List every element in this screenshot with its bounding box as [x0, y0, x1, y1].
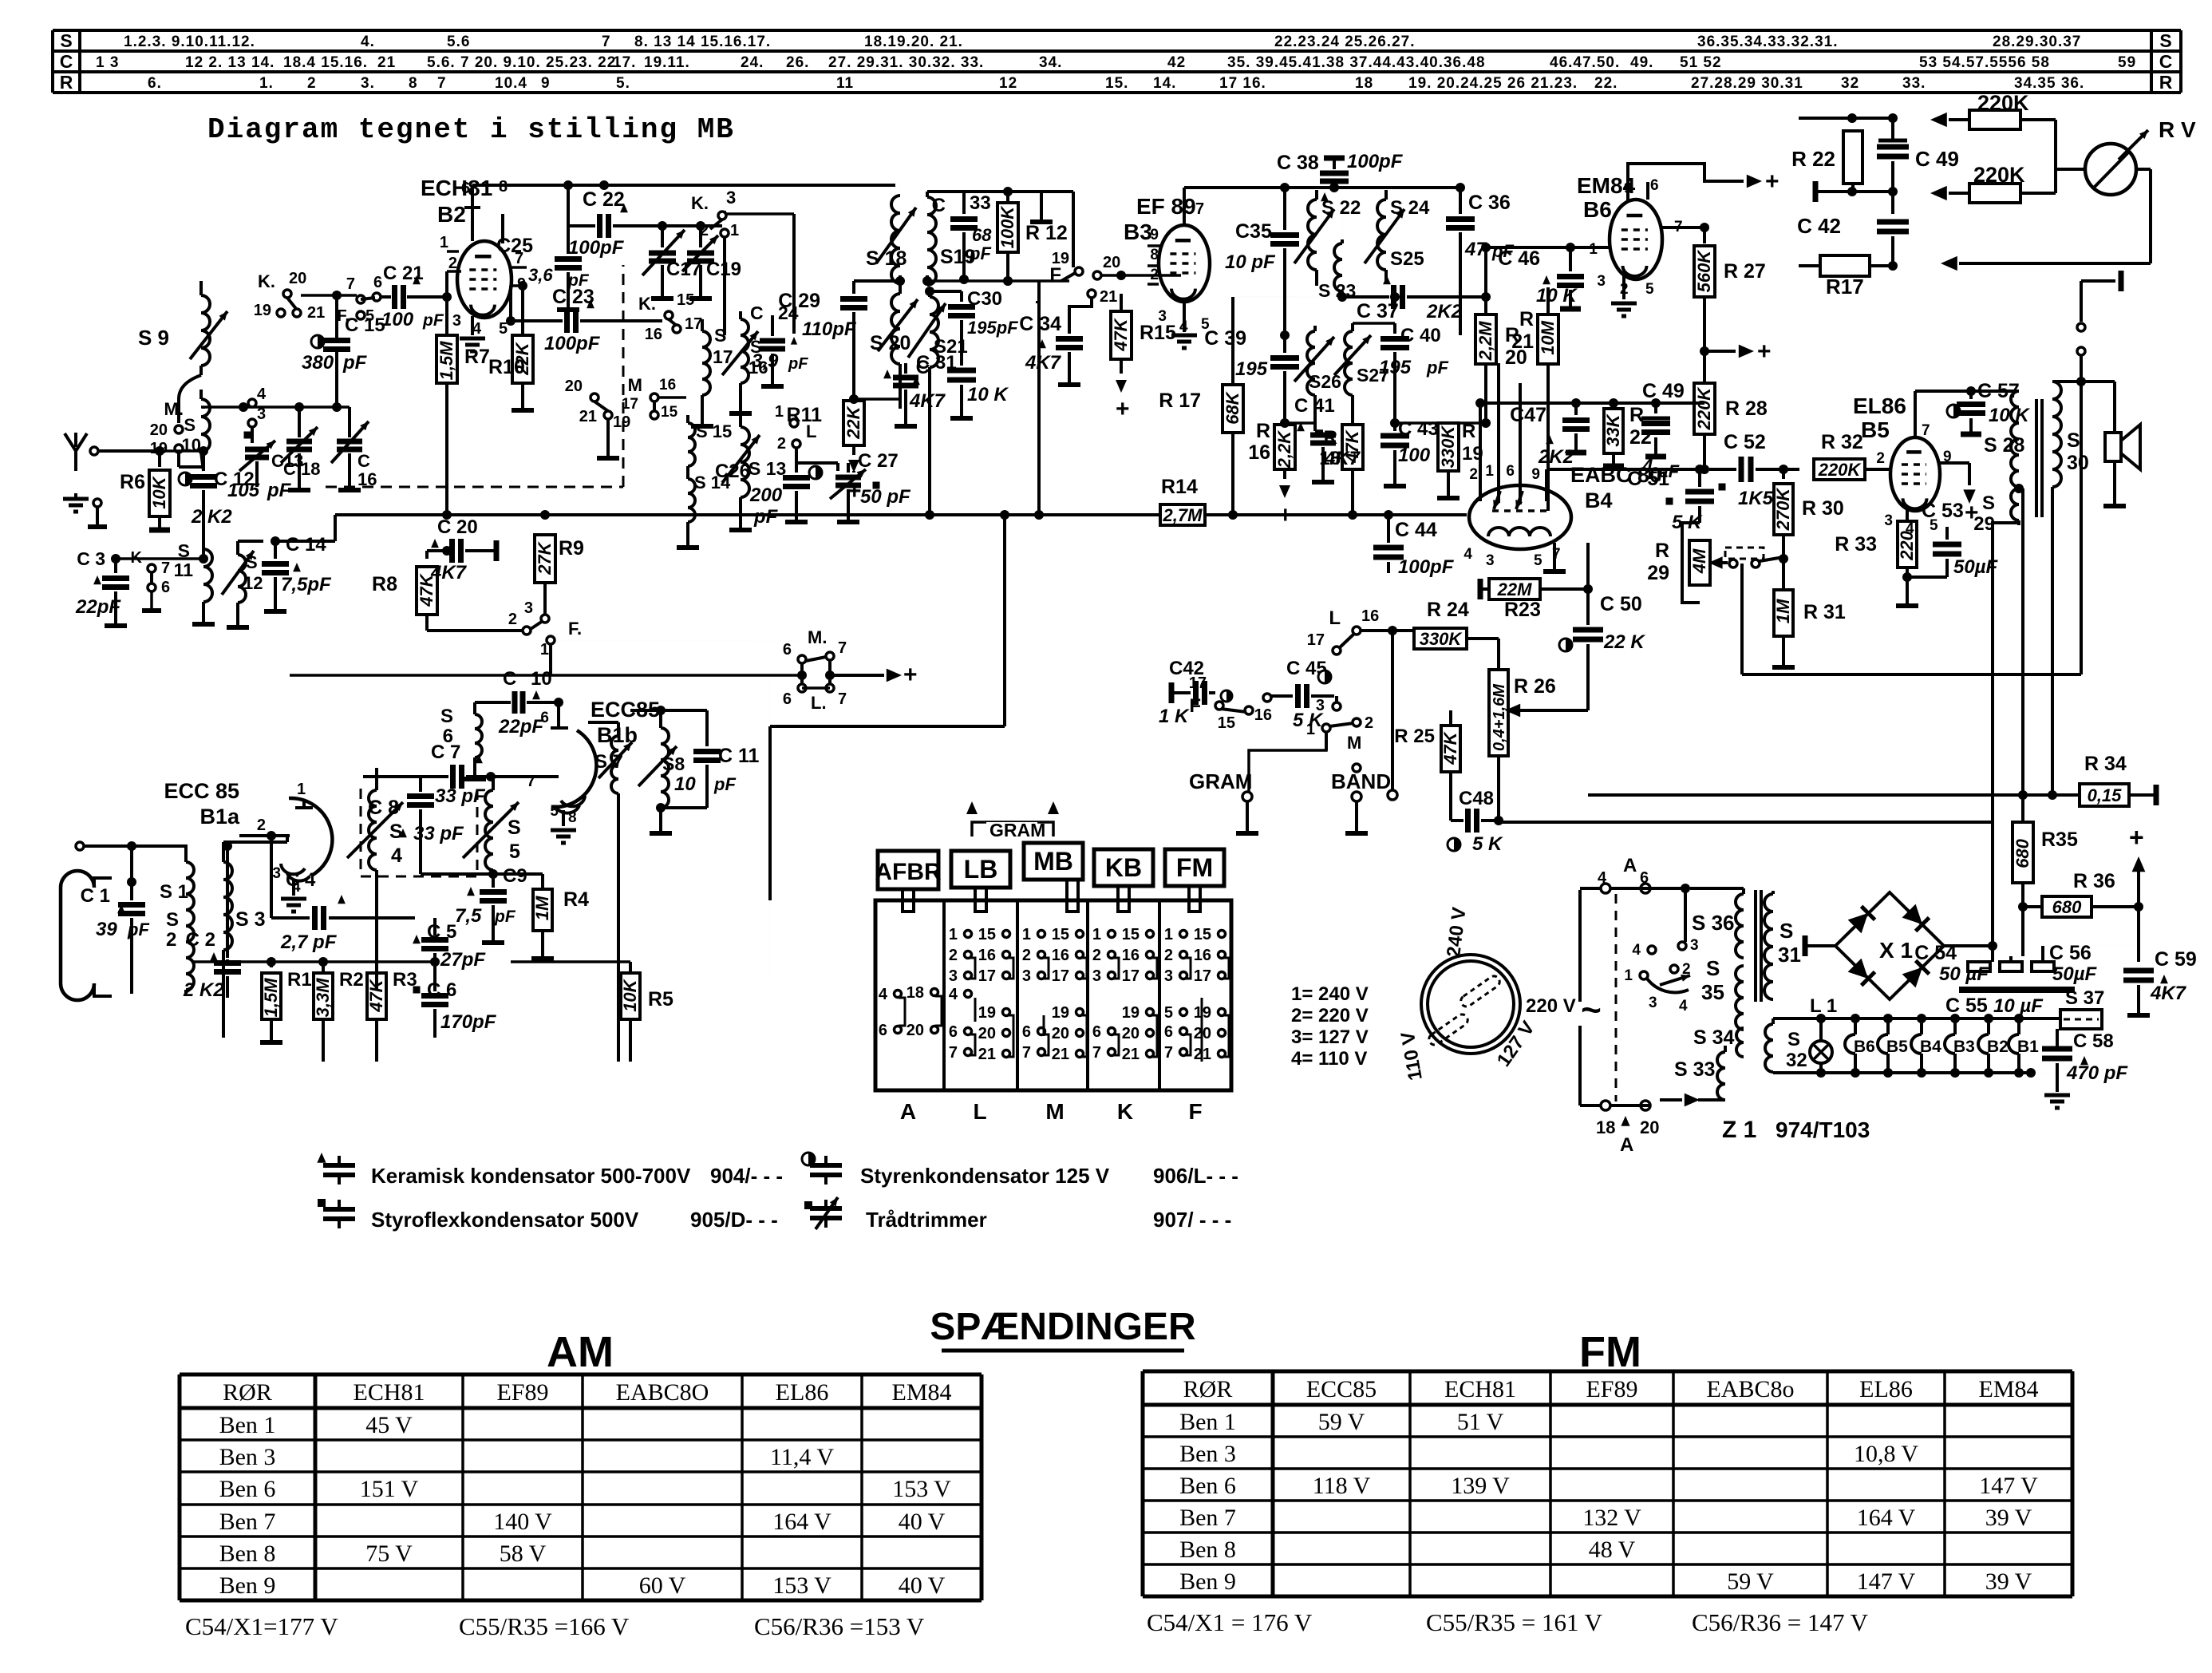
svg-text:S 20: S 20: [870, 332, 910, 354]
svg-text:21: 21: [1100, 288, 1117, 306]
svg-text:A: A: [1620, 1134, 1633, 1156]
svg-text:5: 5: [365, 307, 374, 325]
svg-text:S: S: [1706, 956, 1720, 980]
svg-text:C30: C30: [967, 288, 1002, 310]
svg-text:33 pF: 33 pF: [413, 823, 464, 844]
capacitor C51 5K: [1698, 469, 1701, 487]
svg-text:1: 1: [1589, 241, 1598, 258]
svg-text:K.: K.: [638, 294, 656, 314]
tube ECH81 B2: [457, 241, 512, 318]
svg-text:20: 20: [1640, 1117, 1659, 1137]
wires AM input rail: [116, 557, 203, 560]
svg-text:C 22: C 22: [583, 188, 625, 211]
svg-text:20: 20: [150, 421, 168, 439]
svg-text:1: 1: [1164, 926, 1173, 943]
svg-text:164 V: 164 V: [772, 1509, 831, 1535]
svg-text:9: 9: [541, 75, 551, 92]
svg-text:35. 39.45.41.38 37.44.43.40.36: 35. 39.45.41.38 37.44.43.40.36.48: [1227, 54, 1486, 71]
svg-text:+: +: [1116, 396, 1130, 422]
dashed osc box: [326, 486, 623, 488]
svg-text:Trådtrimmer: Trådtrimmer: [866, 1208, 987, 1232]
svg-text:10.4: 10.4: [495, 75, 527, 92]
svg-text:C48: C48: [1459, 788, 1494, 809]
svg-text:200: 200: [749, 484, 783, 506]
svg-text:220K: 220K: [1694, 386, 1714, 431]
resistor R14 2,7M: [1160, 504, 1205, 525]
svg-text:R 25: R 25: [1394, 726, 1435, 747]
svg-text:C 27: C 27: [858, 450, 899, 472]
svg-text:C 58: C 58: [2073, 1030, 2114, 1052]
svg-text:C35: C35: [1235, 220, 1272, 243]
resistor R15 47K: [1120, 275, 1122, 294]
svg-text:5: 5: [1645, 281, 1654, 298]
capacitor C52 1K5: [1739, 457, 1744, 482]
capacitor C4 2,7pF: [270, 836, 273, 918]
svg-text:20: 20: [978, 1025, 996, 1042]
svg-text:6: 6: [461, 180, 470, 197]
svg-text:164 V: 164 V: [1857, 1505, 1916, 1531]
coil S14: [688, 479, 695, 522]
tradtrimmer symbol: [804, 1201, 812, 1209]
capacitor C45 5K: [1271, 694, 1293, 698]
svg-text:S25: S25: [1390, 248, 1424, 270]
svg-text:C 34: C 34: [1019, 313, 1061, 335]
svg-text:2: 2: [777, 435, 786, 453]
resistor R28 220K: [1703, 367, 1706, 382]
svg-text:B4: B4: [1920, 1038, 1941, 1056]
svg-text:12 2. 13 14.: 12 2. 13 14.: [185, 54, 275, 71]
svg-text:17: 17: [1194, 967, 1211, 985]
coil S16: [741, 319, 749, 383]
svg-text:EF 89: EF 89: [1136, 194, 1196, 219]
svg-text:3: 3: [1316, 697, 1325, 714]
capacitor C35 10pF: [1284, 188, 1286, 214]
svg-text:1: 1: [1022, 926, 1031, 943]
resistor R22: [1843, 131, 1862, 184]
svg-text:40 V: 40 V: [899, 1509, 946, 1535]
capacitor C21 100pF: [381, 295, 391, 299]
svg-text:R: R: [1655, 540, 1669, 562]
svg-text:27.28.29 30.31: 27.28.29 30.31: [1691, 75, 1803, 92]
wire S30 top to speaker: [2052, 380, 2115, 383]
svg-text:3: 3: [1884, 512, 1893, 529]
svg-text:19. 20.24.25 26 21.23.: 19. 20.24.25 26 21.23.: [1408, 75, 1578, 92]
legend symbols: [317, 1153, 326, 1163]
svg-text:39 V: 39 V: [1985, 1568, 2032, 1595]
svg-text:5: 5: [509, 840, 520, 863]
svg-text:S 24: S 24: [1390, 197, 1430, 219]
R19 330K: [1438, 423, 1459, 471]
svg-text:2: 2: [1164, 947, 1173, 964]
resistor R25 47K: [1449, 710, 1452, 725]
svg-text:19: 19: [978, 1004, 996, 1022]
svg-text:pF: pF: [1426, 358, 1448, 378]
capacitor C9 7,5pF: [480, 889, 507, 895]
svg-text:2: 2: [257, 817, 266, 834]
svg-text:EL86: EL86: [1859, 1376, 1913, 1402]
svg-text:195: 195: [1235, 358, 1268, 380]
svg-text:18.4 15.16.: 18.4 15.16.: [283, 54, 368, 71]
svg-text:Ben 6: Ben 6: [1179, 1473, 1236, 1499]
svg-text:17: 17: [685, 315, 702, 333]
svg-text:EM84: EM84: [1979, 1376, 2039, 1402]
resistor R27 560K: [1694, 246, 1715, 297]
svg-text:K: K: [1117, 1099, 1133, 1124]
svg-text:Styrenkondensator 125 V: Styrenkondensator 125 V: [860, 1164, 1110, 1188]
triode ECC85 B1a: [289, 798, 332, 875]
svg-text:58 V: 58 V: [500, 1541, 547, 1567]
svg-text:M.: M.: [164, 399, 184, 419]
svg-text:Ben 7: Ben 7: [219, 1509, 276, 1535]
svg-text:132 V: 132 V: [1582, 1505, 1641, 1531]
svg-text:905/D- - -: 905/D- - -: [690, 1208, 778, 1232]
svg-text:15: 15: [1218, 714, 1235, 732]
coil S24: [1377, 200, 1386, 270]
resistor R3 47K: [367, 973, 386, 1019]
svg-text:C54/X1=177 V: C54/X1=177 V: [185, 1612, 338, 1640]
svg-text:M.: M.: [808, 627, 827, 647]
capacitor C25 3,6pF: [563, 180, 573, 190]
svg-text:S: S: [1779, 919, 1793, 943]
tube EABC80 B4: [1469, 485, 1571, 549]
grid return wire: [226, 959, 229, 962]
svg-text:12: 12: [243, 573, 263, 593]
svg-text:R5: R5: [648, 988, 673, 1011]
output transformer S28/S29/S30: [2011, 391, 2019, 487]
svg-text:2: 2: [700, 222, 709, 239]
svg-text:R 28: R 28: [1725, 397, 1768, 420]
svg-text:+: +: [903, 662, 918, 688]
svg-text:C 55: C 55: [1945, 995, 1988, 1017]
svg-text:147 V: 147 V: [1979, 1473, 2038, 1499]
switch M/L 20/17/16/15: [591, 394, 598, 401]
svg-text:16: 16: [1361, 607, 1379, 625]
svg-text:S: S: [440, 706, 453, 727]
svg-text:R3: R3: [393, 969, 417, 991]
svg-text:39 V: 39 V: [1985, 1505, 2032, 1531]
cathode ground: [1553, 543, 1556, 559]
svg-text:19: 19: [1052, 1004, 1069, 1022]
S19 top box C33 R12: [927, 190, 1073, 193]
svg-text:C56/R36 =153 V: C56/R36 =153 V: [754, 1612, 925, 1640]
svg-text:16: 16: [1248, 441, 1270, 464]
svg-text:21: 21: [1122, 1046, 1140, 1063]
svg-text:1,5M: 1,5M: [261, 978, 281, 1018]
coil S3: [223, 862, 232, 950]
resistor R26 0,4+1,6M pot: [1489, 670, 1508, 756]
svg-text:270K: 270K: [1773, 487, 1793, 532]
svg-text:3= 127 V: 3= 127 V: [1291, 1026, 1369, 1048]
svg-text:60 V: 60 V: [639, 1572, 686, 1599]
svg-text:R: R: [1256, 420, 1270, 442]
svg-text:S 1: S 1: [160, 881, 188, 903]
heater circuit S32: [1765, 1024, 1773, 1072]
svg-text:R10: R10: [488, 356, 525, 378]
capacitor C48 5K: [1465, 809, 1471, 833]
svg-text:R4: R4: [563, 888, 589, 911]
svg-text:19.11.: 19.11.: [644, 54, 690, 71]
svg-text:8: 8: [1150, 247, 1159, 263]
coil S11: [203, 549, 212, 602]
grid rail wires to caps row: [1480, 402, 1704, 404]
ground terminal: [63, 497, 89, 501]
svg-text:21: 21: [307, 304, 325, 322]
resistor R35 680: [2018, 790, 2028, 800]
svg-text:20: 20: [289, 270, 306, 287]
connector plugs: [878, 851, 938, 889]
resistor R9 27K: [543, 515, 547, 519]
resistor R4 1M: [541, 886, 544, 888]
variable caps C18 C16: [298, 423, 301, 437]
svg-text:GRAM: GRAM: [989, 820, 1045, 840]
svg-text:7: 7: [838, 690, 847, 708]
svg-text:1K5: 1K5: [1738, 488, 1774, 509]
node wires AM band rail: [202, 407, 205, 409]
svg-text:Z 1: Z 1: [1722, 1117, 1756, 1143]
coil S10: [201, 399, 210, 452]
svg-text:6.: 6.: [148, 75, 162, 92]
svg-text:AFBR: AFBR: [875, 859, 942, 885]
svg-text:M: M: [1347, 733, 1361, 753]
svg-text:R: R: [2159, 72, 2173, 93]
switch matrix box: [875, 900, 1231, 1090]
svg-text:+: +: [847, 478, 862, 504]
resistor R33 220: [1898, 521, 1917, 568]
svg-text:S: S: [1787, 1029, 1800, 1050]
C43 100pF: [1393, 423, 1396, 431]
capacitor C38 100pF: [1333, 169, 1335, 188]
wire loop above EM84 to +: [1628, 164, 1744, 201]
svg-text:pF: pF: [422, 311, 444, 330]
coil S18: [891, 196, 900, 283]
svg-text:36.35.34.33.32.31.: 36.35.34.33.32.31.: [1697, 34, 1838, 50]
svg-text:K.: K.: [691, 193, 709, 213]
svg-text:8: 8: [568, 809, 577, 826]
svg-text:ECH81: ECH81: [354, 1379, 425, 1406]
svg-text:21: 21: [377, 54, 396, 71]
svg-text:1,5M: 1,5M: [436, 341, 456, 381]
svg-text:5.: 5.: [616, 75, 630, 92]
bridge rectifier X1: [1835, 892, 1944, 999]
svg-text:22.: 22.: [1594, 75, 1618, 92]
svg-text:A: A: [1623, 855, 1637, 876]
svg-text:ECC 85: ECC 85: [164, 779, 239, 803]
svg-text:170pF: 170pF: [440, 1011, 497, 1033]
svg-text:22K: 22K: [843, 405, 863, 439]
svg-text:100pF: 100pF: [1398, 556, 1455, 578]
wire S5 to C9/R4: [488, 869, 498, 879]
svg-text:S: S: [184, 415, 196, 435]
svg-text:17: 17: [1052, 967, 1069, 985]
svg-text:S 15: S 15: [696, 421, 732, 441]
svg-text:220K: 220K: [1818, 460, 1862, 480]
svg-text:2: 2: [949, 947, 958, 964]
svg-text:R: R: [1324, 427, 1337, 449]
capacitor C23 100pF: [511, 319, 563, 322]
svg-text:+: +: [2129, 823, 2144, 852]
GRAM arrows: [972, 822, 1053, 836]
svg-text:4: 4: [257, 386, 267, 403]
svg-text:B5: B5: [1886, 1038, 1908, 1056]
svg-text:3: 3: [1022, 967, 1031, 985]
svg-text:32: 32: [1841, 75, 1859, 92]
svg-text:151 V: 151 V: [360, 1476, 419, 1502]
pickup jack: [2119, 271, 2124, 291]
svg-text:R8: R8: [372, 573, 397, 595]
svg-text:B5: B5: [1861, 417, 1890, 442]
svg-text:1M: 1M: [1773, 599, 1793, 623]
svg-text:19: 19: [254, 302, 271, 319]
svg-text:AM: AM: [547, 1328, 614, 1376]
wire S21 bottom to bus: [925, 510, 934, 520]
svg-text:6: 6: [879, 1022, 887, 1039]
svg-text:C42: C42: [1169, 658, 1204, 679]
svg-text:15: 15: [677, 291, 694, 309]
coil S8 + C11: [661, 728, 669, 808]
svg-text:M: M: [628, 375, 642, 395]
svg-text:S 33: S 33: [1674, 1058, 1715, 1081]
svg-text:53 54.57.5556 58: 53 54.57.5556 58: [1919, 54, 2050, 71]
svg-text:904/- - -: 904/- - -: [710, 1164, 783, 1188]
resistor R20 2,2M: [1485, 297, 1487, 307]
heater buses: [1773, 1017, 2060, 1020]
svg-text:Diagram tegnet i stilling MB: Diagram tegnet i stilling MB: [207, 113, 735, 146]
S19 bottom rail: [922, 276, 932, 286]
svg-text:S 36: S 36: [1692, 911, 1735, 935]
svg-text:16: 16: [659, 377, 676, 394]
R18 47K: [1342, 425, 1363, 469]
svg-text:3: 3: [272, 865, 281, 882]
svg-text:Ben 1: Ben 1: [1179, 1409, 1236, 1435]
resistor R36 680: [2023, 905, 2041, 908]
wire EL86 pin7 to transformer: [1915, 390, 2019, 393]
svg-text:1: 1: [949, 926, 958, 943]
svg-text:0,4+1,6M: 0,4+1,6M: [1491, 683, 1508, 751]
svg-text:SPÆNDINGER: SPÆNDINGER: [930, 1306, 1195, 1348]
FM dipole antenna: [61, 871, 94, 1000]
svg-text:+: +: [1757, 338, 1772, 365]
svg-text:5: 5: [550, 803, 559, 820]
svg-text:~: ~: [1581, 991, 1602, 1030]
svg-text:A: A: [900, 1099, 916, 1124]
tube EM84 B6: [1610, 200, 1662, 279]
switch F 19/20/21: [1075, 267, 1083, 275]
svg-text:19: 19: [150, 440, 168, 457]
anode arrows inside: [1494, 491, 1500, 509]
svg-text:195pF: 195pF: [967, 318, 1018, 338]
svg-text:1: 1: [775, 403, 784, 421]
capacitor C34 4K7: [1069, 298, 1092, 334]
resistor R5 10K: [629, 962, 632, 973]
svg-text:C 59: C 59: [2155, 948, 2197, 971]
coil S7: [611, 736, 618, 793]
svg-text:50µF: 50µF: [2052, 963, 2098, 985]
resistor R32 220K: [1814, 459, 1865, 480]
svg-text:MB: MB: [1033, 847, 1073, 876]
svg-text:R 27: R 27: [1724, 260, 1766, 283]
svg-text:X 1: X 1: [1879, 938, 1913, 963]
svg-text:C 42: C 42: [1797, 214, 1841, 238]
svg-text:6: 6: [1092, 1023, 1101, 1041]
svg-text:75 V: 75 V: [365, 1541, 413, 1567]
svg-text:11: 11: [174, 560, 194, 580]
ground stub right of R12: [1008, 195, 1045, 196]
svg-text:9: 9: [1150, 227, 1159, 243]
svg-text:118 V: 118 V: [1313, 1473, 1371, 1499]
svg-text:R7: R7: [464, 346, 490, 368]
svg-text:16: 16: [978, 947, 996, 964]
detector out wire: [1546, 468, 1700, 471]
svg-text:F: F: [1188, 1099, 1202, 1124]
svg-text:4M: 4M: [1689, 548, 1709, 574]
svg-text:7: 7: [1022, 1044, 1031, 1062]
svg-text:S 34: S 34: [1693, 1026, 1735, 1049]
tuning gang dashed link: [361, 789, 477, 876]
svg-text:20: 20: [1052, 1025, 1069, 1042]
R16 2,2K: [1274, 425, 1295, 469]
svg-text:59 V: 59 V: [1318, 1409, 1365, 1435]
svg-text:2,2K: 2,2K: [1274, 429, 1294, 469]
svg-text:3: 3: [524, 599, 533, 617]
svg-text:0,15: 0,15: [2088, 785, 2123, 805]
svg-text:3: 3: [1649, 995, 1657, 1011]
svg-text:C 2: C 2: [186, 929, 215, 951]
svg-text:7: 7: [1922, 422, 1930, 439]
long rail y=845: [1742, 673, 2081, 676]
svg-text:1: 1: [1306, 721, 1315, 738]
svg-text:1= 240 V: 1= 240 V: [1291, 983, 1369, 1005]
svg-text:C 51: C 51: [1627, 468, 1669, 490]
capacitor C32 10K: [947, 368, 976, 374]
svg-text:3: 3: [1092, 967, 1101, 985]
capacitor C5 27pF: [433, 918, 436, 935]
svg-text:35: 35: [1701, 980, 1724, 1004]
svg-text:22pF: 22pF: [498, 716, 544, 738]
wire pin7 to R27: [1661, 227, 1704, 243]
svg-text:906/L- - -: 906/L- - -: [1153, 1164, 1238, 1188]
svg-text:3: 3: [1164, 967, 1173, 985]
svg-text:10,8 V: 10,8 V: [1854, 1441, 1918, 1467]
M/L reversing block: [290, 674, 798, 677]
svg-text:18: 18: [1319, 448, 1341, 469]
svg-text:R2: R2: [339, 969, 364, 991]
svg-text:R6: R6: [120, 471, 145, 493]
svg-text:16: 16: [1122, 947, 1140, 964]
svg-text:6: 6: [1022, 1023, 1031, 1041]
svg-text:R 22: R 22: [1791, 147, 1835, 171]
svg-text:33: 33: [970, 192, 991, 214]
svg-text:34.: 34.: [1039, 54, 1062, 71]
svg-text:9: 9: [1531, 466, 1540, 483]
svg-text:EABC8o: EABC8o: [1706, 1376, 1794, 1402]
svg-text:2,2M: 2,2M: [1475, 321, 1495, 362]
svg-text:49.: 49.: [1630, 54, 1653, 71]
capacitor C36 47pF: [1460, 188, 1461, 208]
resistor R30 270K: [1779, 465, 1788, 474]
svg-text:10: 10: [674, 773, 696, 795]
svg-text:C 1: C 1: [81, 885, 110, 907]
svg-text:47K: 47K: [1440, 730, 1460, 765]
svg-text:10 pF: 10 pF: [1225, 251, 1276, 273]
svg-text:S 28: S 28: [1984, 434, 2025, 457]
coil S12 variable: [238, 555, 246, 603]
svg-text:6: 6: [1650, 177, 1659, 194]
svg-text:1: 1: [297, 781, 306, 798]
svg-text:7: 7: [838, 639, 847, 657]
svg-text:3: 3: [1690, 937, 1699, 954]
svg-text:2,7M: 2,7M: [1163, 505, 1203, 525]
svg-text:Ben 7: Ben 7: [1179, 1505, 1236, 1531]
